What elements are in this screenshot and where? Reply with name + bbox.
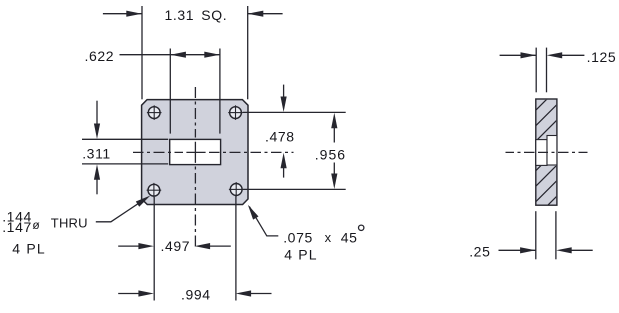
- side view aperture notch left: [536, 140, 547, 166]
- dimension .25 left arrowhead: [520, 247, 536, 253]
- svg-text:.075: .075: [283, 229, 313, 245]
- svg-text:THRU: THRU: [51, 215, 88, 230]
- degree symbol: [359, 225, 364, 230]
- extension line aperture bottom (.311 dim): [82, 163, 168, 165]
- dimension .25 line left: [499, 249, 536, 251]
- dimension .994 right arrowhead: [236, 290, 252, 296]
- dimension .994 left arrowhead: [138, 290, 154, 296]
- leader line from THRU note to hole: [96, 202, 141, 222]
- dimension .956 line lower segment: [333, 163, 335, 184]
- mounting hole bottom-right: [229, 182, 244, 197]
- dimension .311 upper arrow stem: [96, 101, 98, 134]
- svg-text:.622: .622: [85, 48, 115, 64]
- dimension .497 line right: [208, 245, 231, 247]
- dimension 1.31 SQ. left arrowhead: [126, 11, 142, 17]
- mounting hole bottom-left: [147, 183, 162, 198]
- dimension .994 line right: [249, 293, 272, 295]
- dimension .478 lower arrow stem: [283, 159, 285, 178]
- svg-text:x: x: [325, 230, 332, 245]
- extension line top hole row (.478/.956 dims): [243, 111, 346, 113]
- dimension .956 top arrowhead: [331, 113, 337, 129]
- dimension .478 upper arrow stem: [283, 85, 285, 107]
- dimension .622 right arrowhead: [204, 52, 220, 58]
- dimension .25 line right: [570, 249, 593, 251]
- extension line left hole column (.497/.994 dims): [153, 197, 155, 301]
- leader arrowhead to bottom-right chamfer: [248, 205, 259, 220]
- extension line side right edge (.25 dim): [555, 211, 557, 259]
- extension line aperture right (.622 dim): [219, 49, 221, 134]
- dimension .125 line left: [500, 54, 536, 56]
- side view horizontal centerline: [506, 151, 588, 153]
- svg-text:.25: .25: [469, 244, 490, 260]
- extension line side step (.125 dim): [546, 48, 548, 93]
- dimension .311 lower arrow stem: [96, 170, 98, 194]
- dimension 1.31 SQ. right arrowhead: [248, 11, 263, 17]
- svg-text:45: 45: [341, 229, 358, 245]
- leader line from chamfer note to corner: [249, 207, 278, 236]
- dimension .311 lower arrowhead: [94, 164, 100, 180]
- extension line bottom hole row (.956 dim): [243, 188, 345, 190]
- extension line side left edge (.25 dim): [535, 211, 537, 259]
- dimension .622 line between arrows: [170, 54, 219, 56]
- extension line right hole column (.994 dim): [235, 196, 237, 301]
- svg-text:4 PL: 4 PL: [284, 247, 318, 263]
- dimension .497 right arrowhead: [195, 243, 211, 249]
- hatching lower block: [492, 95, 619, 215]
- hatching upper block: [431, 95, 598, 215]
- svg-text:1.31: 1.31: [165, 7, 195, 23]
- dimension .956 bottom arrowhead: [331, 174, 337, 190]
- svg-text:.994: .994: [181, 286, 211, 302]
- dimension .956 line upper segment: [333, 119, 335, 143]
- extension line aperture top (.311 dim): [82, 138, 168, 140]
- extension line plate left edge (1.31 dim): [141, 6, 143, 99]
- dimension .478 lower arrowhead: [281, 153, 287, 169]
- mounting hole top-right: [228, 105, 243, 120]
- svg-text:.478: .478: [265, 128, 295, 144]
- svg-text:.956: .956: [315, 146, 346, 162]
- dimension .311 upper arrowhead: [94, 124, 100, 140]
- dimension .125 left arrowhead: [521, 52, 537, 58]
- extension line aperture left (.622 dim): [169, 49, 171, 134]
- extension line side left edge (.125 dim): [535, 48, 537, 93]
- dimension .622 left arrowhead: [170, 52, 186, 58]
- front view flange plate outline with chamfered corners: [142, 100, 248, 205]
- dimension .497 left arrowhead: [138, 243, 154, 249]
- dimension 1.31 SQ. line right: [248, 13, 283, 15]
- dimension .497 line left: [118, 245, 141, 247]
- dimension .25 right arrowhead: [556, 247, 572, 253]
- dimension .478 upper arrowhead: [281, 97, 287, 113]
- svg-text:4 PL: 4 PL: [12, 240, 46, 256]
- leader arrowhead to bottom-left hole: [136, 196, 151, 207]
- svg-text:SQ.: SQ.: [201, 7, 227, 23]
- svg-text:.497: .497: [161, 238, 191, 254]
- extension line plate right edge (1.31 dim): [247, 6, 249, 99]
- svg-text:ø: ø: [32, 218, 40, 232]
- dimension .125 line right: [561, 54, 585, 56]
- vertical centerline: [194, 87, 196, 247]
- svg-text:.125: .125: [587, 49, 617, 65]
- side view recess notch right: [547, 136, 557, 166]
- dimension 1.31 SQ. line left: [103, 13, 142, 15]
- dimension .994 line left: [118, 293, 141, 295]
- svg-text:.311: .311: [82, 145, 111, 161]
- dimension .622 leader line: [120, 54, 171, 56]
- side view plate body: [536, 99, 557, 205]
- dimension .125 right arrowhead: [547, 52, 563, 58]
- svg-text:.147: .147: [2, 219, 32, 235]
- horizontal centerline: [133, 151, 294, 153]
- waveguide aperture opening: [170, 139, 221, 164]
- mounting hole top-left: [147, 105, 162, 120]
